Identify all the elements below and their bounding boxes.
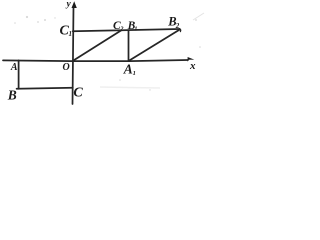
diagonal O to C2 (73, 30, 121, 61)
rectangle left edge A to B (18, 60, 20, 88)
label C1 (60, 24, 73, 39)
svg-text:B: B (7, 87, 17, 102)
label C lower (73, 86, 83, 101)
svg-text:1: 1 (69, 30, 73, 38)
y-axis (73, 6, 74, 104)
label O (62, 62, 69, 73)
diagonal A1 to B2 (129, 29, 180, 60)
svg-text:x: x (189, 60, 196, 72)
faint scratch top right (193, 13, 204, 20)
label y (65, 0, 71, 10)
svg-text:A: A (123, 62, 133, 77)
label B1 (127, 20, 138, 33)
svg-text:1: 1 (134, 26, 137, 33)
rectangle bottom edge B to C (17, 88, 73, 89)
top horizontal line C1 to B2 (73, 29, 180, 31)
svg-text:2: 2 (175, 22, 180, 30)
label C2 (113, 20, 124, 33)
vertical segment B1 to A1 (128, 30, 130, 60)
faint smudge bottom middle (100, 87, 160, 88)
svg-text:1: 1 (133, 70, 136, 77)
label A (10, 62, 18, 73)
svg-text:O: O (62, 62, 69, 73)
svg-text:A: A (10, 62, 18, 73)
label B2 (167, 14, 180, 30)
svg-text:C: C (73, 86, 83, 101)
label B lower (7, 87, 17, 102)
scan noise specks (14, 16, 201, 91)
label x (189, 60, 196, 72)
label A1 (123, 62, 136, 77)
svg-text:2: 2 (119, 26, 124, 33)
svg-text:y: y (65, 0, 71, 10)
x-axis (3, 60, 188, 61)
corner tick at B2 (179, 29, 180, 32)
y-axis arrowhead (72, 1, 77, 8)
x-axis arrowhead (187, 57, 194, 62)
